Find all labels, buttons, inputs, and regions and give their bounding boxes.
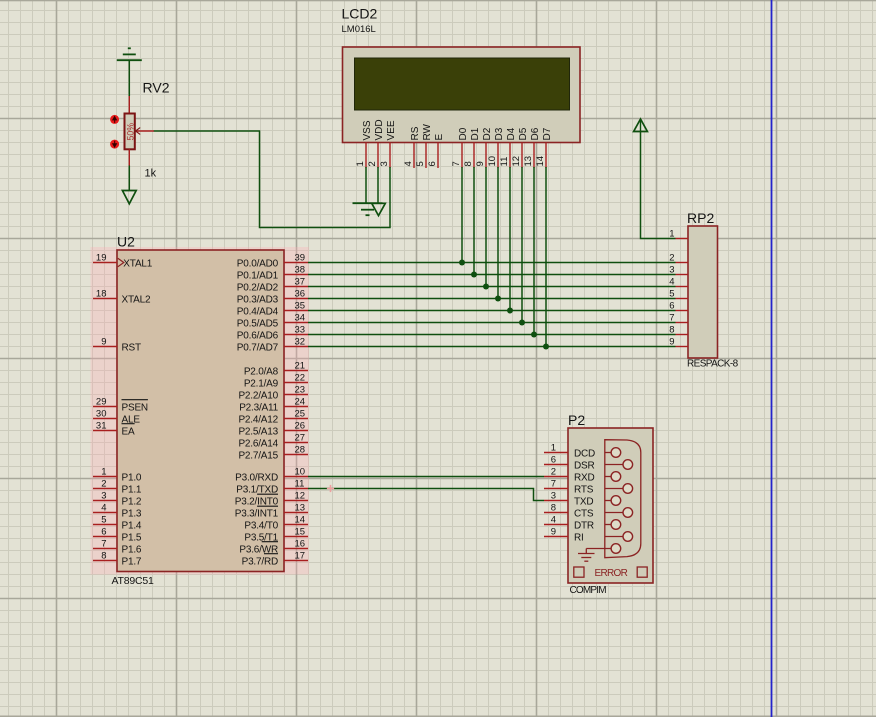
- svg-text:P2.6/A14: P2.6/A14: [238, 438, 278, 449]
- wire P0.5 row to RP2 pin 7: [308, 322, 676, 324]
- P2 pin numbers 1 6 2 7 3 8 4 9: [551, 443, 556, 538]
- svg-text:8: 8: [551, 503, 556, 514]
- svg-text:D0: D0: [458, 127, 469, 140]
- wire P3.0/RXD to COMPIM RXD: [308, 476, 544, 478]
- P2 internal ground: [578, 549, 595, 562]
- U2 left pin names: [122, 258, 153, 567]
- svg-text:D5: D5: [518, 127, 529, 140]
- wire ground to RV2 top: [128, 60, 130, 96]
- svg-text:1: 1: [355, 161, 366, 166]
- U2 overlines PSEN EA INT0 INT1 WR RD: [122, 400, 279, 554]
- wire P3.1/TXD to COMPIM TXD: [308, 489, 544, 501]
- P2 ERROR indicator: [574, 567, 647, 579]
- wire power terminal stem: [640, 119, 642, 132]
- wire LCD D7 vertical: [545, 167, 547, 347]
- junction node D7: [543, 344, 549, 350]
- svg-text:12: 12: [511, 156, 522, 167]
- svg-text:P2.7/A15: P2.7/A15: [238, 450, 278, 461]
- svg-text:9: 9: [101, 337, 106, 348]
- svg-text:37: 37: [295, 277, 306, 288]
- svg-text:3: 3: [669, 265, 674, 276]
- wire power to RP2 pin1: [641, 132, 676, 239]
- svg-text:P0.2/AD2: P0.2/AD2: [237, 282, 279, 293]
- wire VDD pin2 to power terminal: [377, 167, 379, 203]
- svg-text:P1.6: P1.6: [122, 544, 142, 555]
- svg-text:16: 16: [295, 539, 306, 550]
- svg-text:P2.1/A9: P2.1/A9: [244, 378, 279, 389]
- svg-text:9: 9: [475, 161, 486, 166]
- svg-text:23: 23: [295, 385, 306, 396]
- svg-text:RW: RW: [422, 123, 433, 140]
- wire RV2 bottom to power terminal: [128, 166, 130, 191]
- svg-text:11: 11: [295, 479, 305, 490]
- svg-text:P3.1/TXD: P3.1/TXD: [236, 484, 278, 495]
- svg-text:P0.1/AD1: P0.1/AD1: [237, 270, 279, 281]
- wire LCD D1 vertical: [473, 167, 475, 275]
- wire P0.2 row to RP2 pin 4: [308, 286, 676, 288]
- U2 right pin numbers: [295, 253, 306, 562]
- P2 pin stubs: [544, 453, 568, 537]
- svg-text:29: 29: [96, 397, 107, 408]
- LCD pin numbers 1-14: [355, 156, 546, 167]
- svg-text:4: 4: [669, 277, 674, 288]
- svg-text:3: 3: [379, 161, 390, 166]
- svg-text:35: 35: [295, 301, 306, 312]
- svg-text:CTS: CTS: [574, 508, 594, 519]
- U2 left pin numbers: [96, 253, 107, 562]
- P2 DB9 pins 1-9: [586, 448, 632, 554]
- svg-text:P0.5/AD5: P0.5/AD5: [237, 318, 279, 329]
- P2 pin names DCD DSR RXD RTS TXD CTS DTR RI: [574, 448, 595, 543]
- svg-text:PSEN: PSEN: [122, 402, 148, 413]
- junction node D5: [519, 320, 525, 326]
- svg-text:ERROR: ERROR: [595, 568, 628, 579]
- svg-text:1k: 1k: [145, 168, 157, 180]
- RV2 wiper arrow stub: [136, 128, 154, 135]
- wire P0.1 row to RP2 pin 3: [308, 274, 676, 276]
- svg-text:P1.7: P1.7: [122, 556, 142, 567]
- svg-text:3: 3: [551, 491, 556, 502]
- svg-text:P3.7/RD: P3.7/RD: [242, 556, 278, 567]
- RP2 pin numbers 1-9: [669, 229, 674, 348]
- RP2 pin stubs 1-9: [676, 239, 689, 347]
- wire LCD D6 vertical: [533, 167, 535, 335]
- U2 XTAL1 clock marker: [118, 258, 124, 266]
- svg-text:LCD2: LCD2: [342, 6, 378, 22]
- resistor pack RP2 body: [688, 226, 718, 358]
- svg-text:14: 14: [295, 515, 306, 526]
- svg-text:10: 10: [295, 467, 306, 478]
- svg-text:7: 7: [669, 313, 674, 324]
- U2 left pin stubs: [93, 263, 117, 561]
- svg-text:9: 9: [551, 527, 556, 538]
- svg-text:D7: D7: [542, 127, 553, 140]
- LCD LCD2 ref label: [342, 6, 378, 36]
- svg-text:6: 6: [551, 455, 556, 466]
- LCD pin stubs 1-14: [366, 143, 546, 169]
- ground under LCD pin 1: [353, 203, 383, 215]
- svg-text:30: 30: [96, 409, 107, 420]
- wire P0.7 row to RP2 pin 9: [308, 346, 676, 348]
- svg-text:13: 13: [295, 503, 306, 514]
- wire VEE pin3 to RV2 wiper: [154, 131, 391, 228]
- svg-text:P3.2/INT0: P3.2/INT0: [235, 496, 279, 507]
- svg-text:XTAL1: XTAL1: [122, 258, 153, 269]
- svg-text:1: 1: [669, 229, 674, 240]
- svg-text:TXD: TXD: [574, 496, 593, 507]
- wire LCD D4 vertical: [509, 167, 511, 311]
- svg-text:33: 33: [295, 325, 306, 336]
- wire P0.0 row to RP2 pin 2: [308, 262, 676, 264]
- U2 right pin stubs: [284, 263, 308, 561]
- svg-text:RESPACK-8: RESPACK-8: [687, 359, 739, 370]
- svg-text:D3: D3: [494, 127, 505, 140]
- svg-text:34: 34: [295, 313, 306, 324]
- svg-text:7: 7: [451, 161, 462, 166]
- svg-text:15: 15: [295, 527, 306, 538]
- junction node D0: [459, 260, 465, 266]
- svg-text:2: 2: [101, 479, 106, 490]
- svg-text:EA: EA: [122, 426, 135, 437]
- svg-text:31: 31: [96, 421, 107, 432]
- svg-text:RI: RI: [574, 532, 584, 543]
- svg-text:P0.7/AD7: P0.7/AD7: [237, 342, 279, 353]
- svg-text:5: 5: [415, 161, 426, 166]
- RV2 bottom pin stub: [128, 149, 130, 165]
- junction node D4: [507, 308, 513, 314]
- svg-text:P0.6/AD6: P0.6/AD6: [237, 330, 279, 341]
- LCD LCD2 body LM016L: [343, 47, 581, 143]
- svg-text:6: 6: [101, 527, 106, 538]
- svg-text:4: 4: [551, 515, 556, 526]
- svg-text:6: 6: [669, 301, 674, 312]
- svg-text:P1.0: P1.0: [122, 472, 142, 483]
- wire VSS pin1 to ground: [365, 167, 367, 203]
- wire P0.3 row to RP2 pin 5: [308, 298, 676, 300]
- svg-text:17: 17: [295, 551, 306, 562]
- svg-text:5: 5: [669, 289, 674, 300]
- svg-text:1: 1: [101, 467, 106, 478]
- svg-text:19: 19: [96, 253, 107, 264]
- svg-text:9: 9: [669, 337, 674, 348]
- svg-text:32: 32: [295, 337, 306, 348]
- svg-text:8: 8: [463, 161, 474, 166]
- svg-text:50%: 50%: [125, 123, 135, 141]
- U2 selection highlight: [91, 247, 310, 575]
- ground above RV2 (rotated): [117, 48, 142, 60]
- svg-text:25: 25: [295, 409, 306, 420]
- svg-text:VSS: VSS: [362, 120, 373, 140]
- wire LCD D2 vertical: [485, 167, 487, 287]
- junction node D2: [483, 284, 489, 290]
- svg-text:P1.3: P1.3: [122, 508, 142, 519]
- svg-text:8: 8: [101, 551, 106, 562]
- svg-text:3: 3: [101, 491, 106, 502]
- junction node D1: [471, 272, 477, 278]
- svg-text:5: 5: [101, 515, 106, 526]
- svg-text:AT89C51: AT89C51: [112, 575, 155, 587]
- svg-text:2: 2: [669, 253, 674, 264]
- svg-text:7: 7: [101, 539, 106, 550]
- svg-text:22: 22: [295, 373, 306, 384]
- svg-text:E: E: [434, 134, 445, 141]
- svg-text:P1.2: P1.2: [122, 496, 142, 507]
- pink origin cross marker: [327, 485, 334, 492]
- svg-text:P1.5: P1.5: [122, 532, 142, 543]
- svg-text:26: 26: [295, 421, 306, 432]
- RV2 top pin stub: [128, 96, 130, 114]
- wire LCD D0 vertical: [461, 167, 463, 263]
- svg-text:P0.3/AD3: P0.3/AD3: [237, 294, 279, 305]
- wire LCD D3 vertical: [497, 167, 499, 299]
- junction node D3: [495, 296, 501, 302]
- svg-text:12: 12: [295, 491, 306, 502]
- power terminal arrow down under RV2: [122, 191, 136, 204]
- svg-text:LM016L: LM016L: [342, 24, 376, 35]
- svg-text:10: 10: [487, 156, 498, 167]
- svg-text:RP2: RP2: [687, 210, 714, 226]
- sheet border (blue): [771, 0, 773, 717]
- svg-text:P3.3/INT1: P3.3/INT1: [235, 508, 279, 519]
- U2 right pin names: [235, 258, 279, 567]
- wire P0.6 row to RP2 pin 8: [308, 334, 676, 336]
- LCD pin name labels VSS VDD VEE RS RW E D0-D7: [362, 119, 553, 140]
- microcontroller U2 body: [117, 250, 284, 572]
- svg-text:P2.4/A12: P2.4/A12: [238, 414, 278, 425]
- svg-text:2: 2: [551, 467, 556, 478]
- resistor RV2 body: [125, 114, 136, 150]
- svg-text:U2: U2: [117, 234, 135, 250]
- svg-text:24: 24: [295, 397, 306, 408]
- RV2 increase button: [110, 115, 119, 124]
- svg-text:P2.5/A13: P2.5/A13: [238, 426, 278, 437]
- svg-text:P2.0/A8: P2.0/A8: [244, 366, 279, 377]
- svg-text:8: 8: [669, 325, 674, 336]
- svg-text:RV2: RV2: [143, 80, 170, 96]
- svg-text:27: 27: [295, 433, 306, 444]
- svg-text:P1.1: P1.1: [122, 484, 142, 495]
- RV2 decrease button: [110, 140, 119, 149]
- svg-text:RS: RS: [410, 126, 421, 140]
- svg-text:4: 4: [101, 503, 106, 514]
- svg-text:1: 1: [551, 443, 556, 454]
- svg-text:7: 7: [551, 479, 556, 490]
- svg-text:VDD: VDD: [374, 119, 385, 140]
- svg-text:38: 38: [295, 265, 306, 276]
- wire P0.4 row to RP2 pin 6: [308, 310, 676, 312]
- svg-text:P0.4/AD4: P0.4/AD4: [237, 306, 279, 317]
- svg-text:D4: D4: [506, 127, 517, 140]
- svg-text:RTS: RTS: [574, 484, 594, 495]
- svg-text:P3.0/RXD: P3.0/RXD: [235, 472, 278, 483]
- svg-text:11: 11: [499, 157, 510, 167]
- svg-text:2: 2: [367, 161, 378, 166]
- svg-text:6: 6: [427, 161, 438, 166]
- svg-text:D6: D6: [530, 127, 541, 140]
- svg-text:VEE: VEE: [386, 120, 397, 140]
- svg-text:14: 14: [535, 156, 546, 167]
- svg-text:DTR: DTR: [574, 520, 594, 531]
- svg-text:DCD: DCD: [574, 448, 595, 459]
- svg-text:P0.0/AD0: P0.0/AD0: [237, 258, 279, 269]
- junction node D6: [531, 332, 537, 338]
- P2 DB9 connector outline: [605, 440, 641, 558]
- svg-text:18: 18: [96, 289, 107, 300]
- svg-text:DSR: DSR: [574, 460, 595, 471]
- connector P2 body COMPIM: [568, 428, 653, 583]
- svg-text:P2.3/A11: P2.3/A11: [239, 402, 278, 413]
- power terminal arrow down under LCD pin 2: [372, 203, 386, 215]
- svg-text:4: 4: [403, 161, 414, 166]
- svg-text:RXD: RXD: [574, 472, 595, 483]
- svg-text:P2: P2: [568, 412, 585, 428]
- svg-text:28: 28: [295, 445, 306, 456]
- svg-text:13: 13: [523, 156, 534, 167]
- svg-text:COMPIM: COMPIM: [570, 585, 607, 596]
- svg-text:39: 39: [295, 253, 306, 264]
- svg-text:XTAL2: XTAL2: [122, 294, 151, 305]
- svg-text:P2.2/A10: P2.2/A10: [238, 390, 278, 401]
- svg-text:21: 21: [295, 361, 306, 372]
- wire LCD D5 vertical: [521, 167, 523, 323]
- svg-text:RST: RST: [122, 342, 141, 353]
- svg-text:P3.4/T0: P3.4/T0: [244, 520, 278, 531]
- power terminal arrow up near RP2: [634, 119, 648, 132]
- svg-text:P1.4: P1.4: [122, 520, 142, 531]
- svg-text:D2: D2: [482, 127, 493, 140]
- svg-text:D1: D1: [470, 127, 481, 140]
- svg-text:36: 36: [295, 289, 306, 300]
